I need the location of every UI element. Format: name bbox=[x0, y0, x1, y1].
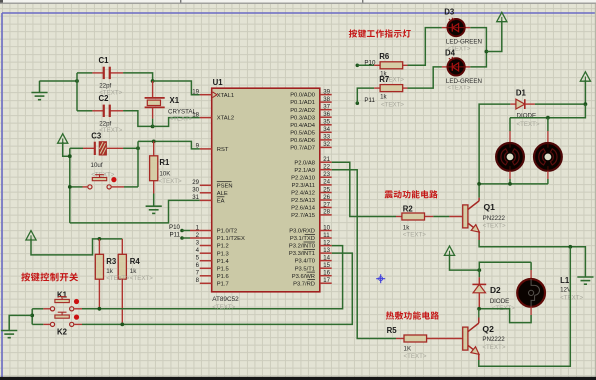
svg-text:PN2222: PN2222 bbox=[483, 215, 506, 222]
svg-text:27: 27 bbox=[323, 201, 330, 208]
wire motor bottom row bbox=[479, 183, 548, 185]
wire R2 to Q1 base bbox=[433, 216, 449, 218]
svg-text:R5: R5 bbox=[387, 326, 398, 335]
svg-text:P2.1/A9: P2.1/A9 bbox=[294, 168, 315, 174]
svg-text:P3.4/T0: P3.4/T0 bbox=[295, 259, 315, 265]
transistor Q1 bbox=[463, 198, 480, 240]
svg-text:17: 17 bbox=[323, 277, 330, 284]
pin 33 P0.6/AD6 stub bbox=[320, 139, 332, 141]
resistor R2 leads bbox=[396, 216, 402, 218]
wire button right bbox=[124, 186, 138, 188]
wire RST node vertical bbox=[137, 141, 139, 187]
reset button leads bbox=[83, 186, 88, 188]
sheet blue border bbox=[2, 12, 596, 14]
svg-text:ALE: ALE bbox=[217, 191, 228, 197]
wire K1 row to P3.2 bbox=[82, 246, 343, 309]
wire C1 left bbox=[77, 72, 92, 74]
node D2 top bbox=[477, 268, 481, 272]
wire C3 right to RST node bbox=[123, 147, 138, 149]
resistor R6 bbox=[380, 62, 403, 69]
svg-text:8: 8 bbox=[196, 277, 200, 284]
svg-text:DIODE: DIODE bbox=[490, 298, 510, 305]
svg-text:Q1: Q1 bbox=[484, 202, 496, 212]
resistor R3 bbox=[95, 254, 103, 279]
power terminal (heater VCC) bbox=[444, 246, 454, 255]
pin 27 P2.6/A14 stub bbox=[320, 207, 332, 209]
node R3 top bbox=[98, 237, 102, 241]
svg-text:K2: K2 bbox=[57, 327, 68, 336]
wire keys VCC to R3/R4 top bbox=[31, 239, 122, 255]
pin 25 P2.4/A12 stub bbox=[320, 192, 332, 194]
svg-text:D2: D2 bbox=[490, 285, 501, 295]
node XTAL1 bbox=[151, 79, 155, 83]
svg-text:L1: L1 bbox=[560, 276, 570, 285]
node motor2 top bbox=[546, 116, 550, 120]
svg-text:23: 23 bbox=[323, 171, 330, 178]
capacitor C1 leads bbox=[92, 72, 103, 74]
resistor R1 bbox=[150, 156, 158, 181]
pin 17 P3.7/RD stub bbox=[320, 282, 332, 284]
pin 2 P1.1/T2EX stub bbox=[200, 237, 212, 239]
crystal X1 bbox=[145, 81, 165, 126]
svg-text:<TEXT>: <TEXT> bbox=[170, 116, 193, 123]
K2 leads bbox=[43, 323, 50, 325]
svg-text:7: 7 bbox=[196, 270, 200, 277]
svg-text:<TEXT>: <TEXT> bbox=[212, 304, 235, 311]
svg-text:<TEXT>: <TEXT> bbox=[560, 295, 583, 302]
pin 32 P0.7/AD7 stub bbox=[320, 146, 332, 148]
pin 35 P0.4/AD4 stub bbox=[320, 124, 332, 126]
wire EA pin31 to VCC rail bbox=[70, 200, 200, 223]
node D1 right bbox=[584, 102, 588, 106]
svg-text:P1.6: P1.6 bbox=[217, 274, 229, 280]
pin 30 ALE stub bbox=[200, 192, 212, 194]
resistor R7 bbox=[380, 85, 403, 92]
svg-text:RST: RST bbox=[217, 147, 229, 153]
LED D4 bbox=[448, 57, 465, 76]
pin 13 P3.3/INT1 stub bbox=[320, 252, 332, 254]
canvas right edge line bbox=[595, 4, 596, 377]
wire K2 row to P3.3 bbox=[82, 253, 352, 324]
pin 1 P1.0/T2 stub bbox=[200, 230, 212, 232]
svg-text:P2.0/A8: P2.0/A8 bbox=[294, 160, 315, 166]
svg-text:P0.6/AD6: P0.6/AD6 bbox=[290, 138, 315, 144]
svg-text:P3.0/RXD: P3.0/RXD bbox=[289, 229, 315, 235]
ground (R1) bbox=[146, 206, 162, 213]
svg-text:12: 12 bbox=[323, 239, 330, 246]
pin 34 P0.5/AD5 stub bbox=[320, 131, 332, 133]
wire D1 left / collector rail bbox=[479, 104, 510, 198]
wire motor1 bottom lead bbox=[509, 171, 511, 179]
wire heater VCC rail bbox=[450, 254, 480, 270]
svg-text:22: 22 bbox=[323, 164, 330, 171]
svg-text:R6: R6 bbox=[379, 52, 390, 61]
diode D1 bbox=[510, 99, 535, 109]
wire K left rail bbox=[32, 308, 43, 310]
switch K1 bbox=[50, 297, 79, 311]
svg-text:10: 10 bbox=[323, 224, 330, 231]
svg-text:<TEXT>: <TEXT> bbox=[403, 232, 426, 239]
node R1 top bbox=[152, 140, 156, 144]
terminal P11 (R7) bbox=[356, 101, 360, 105]
wire button left bbox=[70, 186, 83, 188]
capacitor C3 (polarized) bbox=[83, 142, 123, 155]
svg-text:19: 19 bbox=[192, 89, 199, 96]
transistor Q2 bbox=[463, 309, 479, 360]
pin 19 XTAL1 stub bbox=[200, 94, 212, 96]
LED D3 bbox=[448, 18, 465, 37]
svg-text:<TEXT>: <TEXT> bbox=[482, 344, 505, 351]
svg-text:1k: 1k bbox=[403, 224, 410, 231]
pin XTAL1 clock mark bbox=[213, 92, 217, 98]
power terminal (reset VCC) bbox=[58, 134, 68, 143]
node XTAL2 bottom bbox=[151, 125, 155, 129]
svg-text:4: 4 bbox=[196, 247, 200, 254]
svg-text:<TEXT>: <TEXT> bbox=[130, 275, 153, 282]
label: key control switch (Chinese) bbox=[21, 273, 30, 282]
wire motor2 bottom lead bbox=[547, 171, 549, 179]
resistor R5 bbox=[404, 335, 427, 342]
svg-text:EA: EA bbox=[217, 199, 225, 205]
diode D2 bbox=[472, 270, 486, 309]
svg-text:P11: P11 bbox=[169, 232, 180, 239]
resistor R3 leads bbox=[98, 239, 100, 254]
node LED vcc bbox=[485, 50, 489, 54]
svg-text:P3.2/INT0: P3.2/INT0 bbox=[289, 244, 315, 250]
pin 6 P1.5 stub bbox=[200, 267, 212, 269]
svg-text:XTAL2: XTAL2 bbox=[217, 116, 234, 122]
svg-text:P1.4: P1.4 bbox=[217, 259, 230, 265]
pin 9 RST stub bbox=[200, 148, 212, 150]
svg-text:P2.4/A12: P2.4/A12 bbox=[291, 191, 315, 197]
svg-text:<TEXT>: <TEXT> bbox=[404, 353, 427, 360]
svg-text:36: 36 bbox=[323, 111, 330, 118]
motor M1 bbox=[496, 143, 524, 171]
terminal P10 (R6) bbox=[356, 64, 360, 68]
svg-text:1k: 1k bbox=[130, 268, 137, 275]
node R4 bottom bbox=[120, 323, 124, 327]
svg-text:P1.5: P1.5 bbox=[217, 266, 229, 272]
svg-text:P3.3/INT1: P3.3/INT1 bbox=[289, 251, 315, 257]
wire rail jog to lamp bbox=[479, 262, 531, 270]
svg-text:AT89C52: AT89C52 bbox=[212, 296, 239, 303]
resistor R1 leads bbox=[153, 141, 155, 155]
svg-text:24: 24 bbox=[323, 179, 330, 186]
svg-text:P3.5/T1: P3.5/T1 bbox=[295, 266, 315, 272]
wire C3 left bbox=[70, 147, 83, 149]
label: heating circuit (Chinese) bbox=[386, 311, 394, 319]
node button-vcc bbox=[68, 185, 72, 189]
resistor R6 leads bbox=[374, 64, 380, 66]
pin 31 EA stub bbox=[200, 199, 212, 201]
svg-text:U1: U1 bbox=[213, 78, 224, 87]
terminal P11 (pin2) bbox=[180, 236, 184, 240]
svg-text:PSEN: PSEN bbox=[217, 183, 233, 189]
wire C2 to XTAL2 node bbox=[123, 111, 153, 127]
wire ground to left rail bbox=[39, 81, 41, 93]
svg-text:P3.6/WR: P3.6/WR bbox=[292, 274, 315, 280]
svg-text:6: 6 bbox=[196, 262, 200, 269]
wire R1 to ground bbox=[153, 194, 155, 207]
pin 28 P2.7/A15 stub bbox=[320, 214, 332, 216]
svg-text:P0.4/AD4: P0.4/AD4 bbox=[290, 123, 316, 129]
capacitor C1 bbox=[104, 67, 110, 79]
wire C2 left bbox=[77, 110, 92, 112]
node K rail bbox=[30, 314, 34, 318]
reset button bbox=[88, 175, 117, 189]
wire D1 right to VCC bbox=[535, 103, 586, 105]
wire VCC to motor tops bbox=[510, 104, 585, 118]
svg-text:18: 18 bbox=[192, 111, 199, 118]
pin 29 PSEN stub bbox=[200, 184, 212, 186]
wire XTAL2 node to pin18 bbox=[153, 118, 200, 127]
svg-text:P0.7/AD7: P0.7/AD7 bbox=[290, 146, 315, 152]
capacitor C2 leads bbox=[92, 110, 103, 112]
pin 16 P3.6/WR stub bbox=[320, 275, 332, 277]
pin 23 P2.2/A10 stub bbox=[320, 176, 332, 178]
pin 37 P0.2/AD2 stub bbox=[320, 109, 332, 111]
node: left rail junction bbox=[75, 79, 79, 83]
svg-text:38: 38 bbox=[323, 96, 330, 103]
window top strip bbox=[0, 0, 596, 3]
wire XTAL1 node to pin19 bbox=[153, 81, 200, 95]
svg-text:33: 33 bbox=[323, 134, 330, 141]
svg-text:32: 32 bbox=[323, 141, 330, 148]
ground (right) bbox=[577, 277, 593, 284]
svg-text:16: 16 bbox=[323, 270, 330, 277]
pin 3 P1.2 stub bbox=[200, 245, 212, 247]
wire K rail to ground bbox=[9, 315, 32, 330]
svg-text:<TEXT>: <TEXT> bbox=[159, 178, 182, 185]
ground (C1/C2 left rail) bbox=[31, 93, 47, 100]
svg-text:<TEXT>: <TEXT> bbox=[517, 121, 540, 128]
svg-text:1k: 1k bbox=[380, 93, 387, 100]
wire P11 to R7 bbox=[357, 88, 374, 103]
wire motor1 top lead bbox=[509, 118, 511, 131]
wire left rail vertical bbox=[76, 73, 78, 111]
svg-text:C3: C3 bbox=[91, 132, 102, 141]
svg-text:30: 30 bbox=[192, 187, 199, 194]
svg-text:P1.7: P1.7 bbox=[217, 281, 229, 287]
resistor R2 bbox=[402, 213, 425, 220]
svg-text:<TEXT>: <TEXT> bbox=[483, 222, 506, 229]
wire Q2 emitter to ground rail bbox=[479, 247, 571, 366]
node RST/C3 bbox=[136, 146, 140, 150]
pin 14 P3.4/T0 stub bbox=[320, 260, 332, 262]
svg-text:P1.1/T2EX: P1.1/T2EX bbox=[217, 236, 245, 242]
pin 4 P1.3 stub bbox=[200, 252, 212, 254]
svg-text:XTAL1: XTAL1 bbox=[217, 93, 234, 99]
svg-text:P0.0/AD0: P0.0/AD0 bbox=[290, 93, 315, 99]
LED D4 leads bbox=[442, 66, 447, 68]
svg-text:25: 25 bbox=[323, 186, 330, 193]
wire motor VCC arrow bbox=[584, 80, 586, 104]
wire LED VCC arrow bbox=[486, 21, 501, 52]
capacitor C2 bbox=[104, 105, 110, 117]
window bottom bar bbox=[0, 377, 596, 380]
svg-text:35: 35 bbox=[323, 119, 330, 126]
node Q2 collector bbox=[477, 307, 481, 311]
svg-text:39: 39 bbox=[323, 88, 330, 95]
svg-text:R3: R3 bbox=[106, 257, 117, 266]
svg-text:P3.1/TXD: P3.1/TXD bbox=[290, 236, 315, 242]
svg-text:P1.3: P1.3 bbox=[217, 251, 229, 257]
lamp L1 leads bbox=[530, 262, 532, 270]
svg-text:28: 28 bbox=[323, 209, 330, 216]
LED D3 leads bbox=[442, 27, 447, 29]
svg-text:P0.5/AD5: P0.5/AD5 bbox=[290, 130, 315, 136]
svg-text:10K: 10K bbox=[159, 171, 171, 178]
resistor R4 bbox=[118, 254, 126, 279]
pin 18 XTAL2 stub bbox=[200, 117, 212, 119]
svg-text:Q2: Q2 bbox=[482, 324, 494, 334]
svg-text:1k: 1k bbox=[106, 268, 113, 275]
op: U1 AT89C52 microcontroller body bbox=[212, 88, 320, 292]
label: vibration circuit (Chinese) bbox=[385, 190, 393, 198]
pin 11 P3.1/TXD stub bbox=[320, 237, 332, 239]
svg-text:P2.5/A13: P2.5/A13 bbox=[291, 198, 315, 204]
svg-text:C2: C2 bbox=[99, 94, 110, 103]
ground (keys) bbox=[1, 331, 17, 338]
resistor R4 leads bbox=[121, 239, 123, 254]
svg-text:5: 5 bbox=[196, 255, 200, 262]
wire VCC arrow to rail bbox=[63, 142, 70, 156]
wire reset VCC rail bbox=[69, 148, 71, 223]
svg-text:21: 21 bbox=[323, 156, 330, 163]
svg-text:26: 26 bbox=[323, 194, 330, 201]
lamp L1 bbox=[517, 279, 545, 307]
svg-text:P10: P10 bbox=[169, 224, 181, 231]
svg-text:11: 11 bbox=[323, 232, 330, 239]
pin 5 P1.4 stub bbox=[200, 260, 212, 262]
svg-text:P0.1/AD1: P0.1/AD1 bbox=[290, 100, 315, 106]
svg-text:P2.7/A15: P2.7/A15 bbox=[291, 213, 315, 219]
svg-text:1K: 1K bbox=[404, 346, 412, 353]
svg-text:C1: C1 bbox=[99, 56, 110, 65]
motor M2 bbox=[534, 143, 562, 171]
svg-text:P2.6/A14: P2.6/A14 bbox=[291, 206, 316, 212]
K1 leads bbox=[43, 308, 50, 310]
wire P2.0 to R2 bbox=[332, 162, 396, 216]
svg-text:X1: X1 bbox=[170, 96, 180, 105]
node motor1 bottom bbox=[508, 182, 512, 186]
svg-text:15: 15 bbox=[323, 262, 330, 269]
svg-text:P11: P11 bbox=[364, 97, 375, 104]
svg-text:P0.2/AD2: P0.2/AD2 bbox=[290, 108, 315, 114]
wire P10 to R6 bbox=[357, 64, 374, 66]
svg-text:14: 14 bbox=[323, 254, 330, 261]
node emitter rail bbox=[568, 245, 572, 249]
wire C1 to XTAL1 node bbox=[123, 73, 153, 81]
svg-text:D1: D1 bbox=[516, 88, 527, 97]
svg-text:31: 31 bbox=[192, 194, 199, 201]
pin 7 P1.6 stub bbox=[200, 275, 212, 277]
wire L1 bottom to Q2 collector node bbox=[530, 307, 532, 315]
wire D3 right bbox=[470, 28, 486, 67]
node collector rail bbox=[477, 182, 481, 186]
svg-text:3: 3 bbox=[196, 239, 200, 246]
pin 36 P0.3/AD3 stub bbox=[320, 116, 332, 118]
svg-text:R2: R2 bbox=[403, 204, 414, 213]
svg-text:29: 29 bbox=[192, 179, 199, 186]
pin 26 P2.5/A13 stub bbox=[320, 199, 332, 201]
power terminal (keys VCC) bbox=[26, 231, 36, 240]
svg-text:37: 37 bbox=[323, 104, 330, 111]
svg-text:P2.3/A11: P2.3/A11 bbox=[292, 183, 315, 189]
pin 24 P2.3/A11 stub bbox=[320, 184, 332, 186]
wire motor2 top lead bbox=[547, 118, 549, 131]
resistor R5 leads bbox=[396, 338, 404, 340]
svg-text:10uf: 10uf bbox=[91, 162, 103, 169]
wire R6 to D3 bbox=[408, 28, 442, 66]
svg-text:P1.2: P1.2 bbox=[217, 244, 229, 250]
svg-text:13: 13 bbox=[323, 247, 330, 254]
svg-text:P0.3/AD3: P0.3/AD3 bbox=[290, 115, 315, 121]
node R3 bottom bbox=[98, 307, 102, 311]
svg-text:P1.0/T2: P1.0/T2 bbox=[217, 229, 237, 235]
svg-text:P2.2/A10: P2.2/A10 bbox=[291, 175, 315, 181]
power terminal (motor VCC) bbox=[580, 72, 590, 81]
svg-text:P3.7/RD: P3.7/RD bbox=[293, 281, 315, 287]
pin 12 P3.2/INT0 stub bbox=[320, 245, 332, 247]
svg-text:R4: R4 bbox=[130, 257, 141, 266]
svg-text:D3: D3 bbox=[444, 8, 455, 17]
node arrow-rail bbox=[68, 154, 72, 158]
svg-text:R7: R7 bbox=[379, 75, 389, 84]
svg-text:<TEXT>: <TEXT> bbox=[447, 85, 470, 92]
svg-text:<TEXT>: <TEXT> bbox=[106, 275, 129, 282]
wire P2.1 to R5 bbox=[332, 170, 396, 339]
pin 39 P0.0/AD0 stub bbox=[320, 94, 332, 96]
label: key working indicator (Chinese) bbox=[349, 29, 357, 37]
wire RST top rail bbox=[138, 141, 200, 149]
power terminal (LED VCC) bbox=[497, 12, 507, 21]
wire R7 to D4 bbox=[408, 67, 442, 88]
resistor R7 leads bbox=[374, 87, 380, 89]
svg-text:R1: R1 bbox=[159, 158, 170, 167]
terminal P10 (pin1) bbox=[180, 229, 184, 233]
pin 8 P1.7 stub bbox=[200, 282, 212, 284]
svg-text:<TEXT>: <TEXT> bbox=[99, 127, 122, 134]
switch K2 bbox=[50, 312, 79, 326]
svg-text:D4: D4 bbox=[445, 48, 456, 57]
wire Q1 emitter to ground rail bbox=[479, 240, 585, 277]
pin 21 P2.0/A8 stub bbox=[320, 161, 332, 163]
pin 15 P3.5/T1 stub bbox=[320, 267, 332, 269]
pin 10 P3.0/RXD stub bbox=[320, 230, 332, 232]
pin 22 P2.1/A9 stub bbox=[320, 169, 332, 171]
svg-text:34: 34 bbox=[323, 126, 330, 133]
origin marker bbox=[376, 274, 385, 283]
svg-text:PN2222: PN2222 bbox=[482, 336, 505, 343]
svg-text:<TEXT>: <TEXT> bbox=[381, 102, 404, 109]
pin 38 P0.1/AD1 stub bbox=[320, 101, 332, 103]
